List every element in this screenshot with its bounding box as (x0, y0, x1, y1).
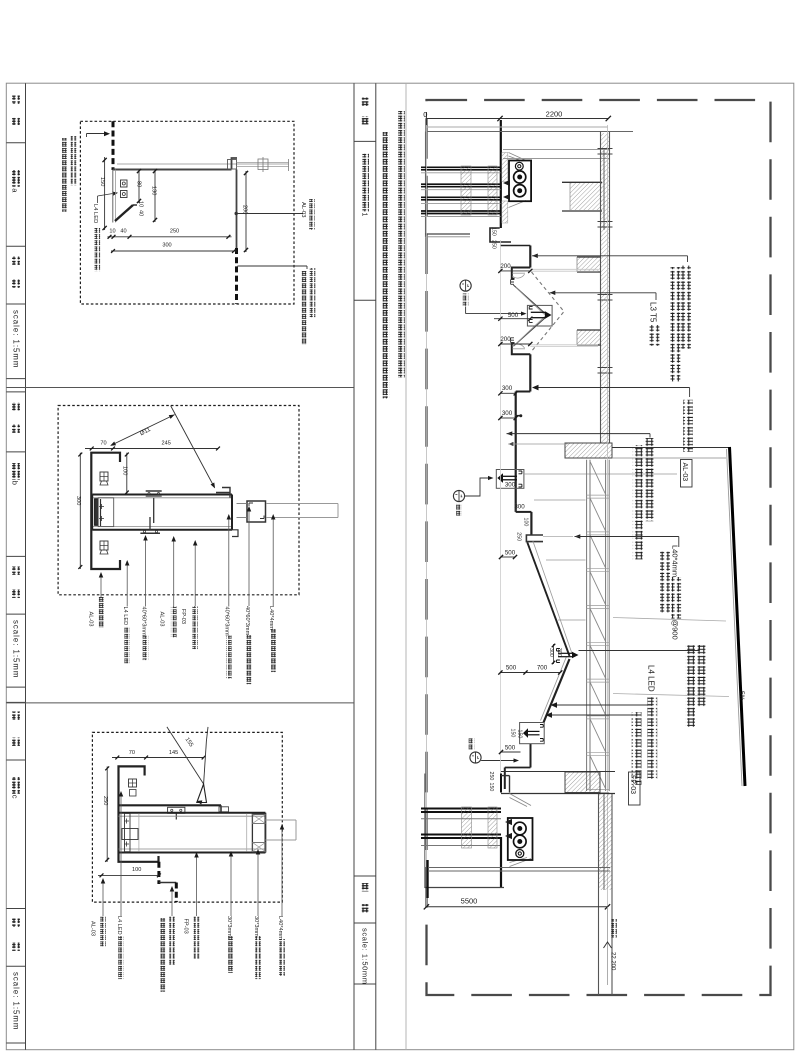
svg-text:70: 70 (129, 750, 135, 756)
detail b label 米白色铝板 (173, 538, 175, 607)
left window hatch blocks (461, 166, 471, 215)
svg-text:150: 150 (99, 177, 105, 186)
detail b label 40*60*3mm镀锌方管@600 (228, 516, 230, 607)
slope hook bracket (526, 535, 543, 542)
extension line right (607, 125, 609, 907)
detail a angle bracket (115, 205, 133, 221)
detail a label 米白色铝板 AL-03 leader (235, 212, 238, 215)
extension line mid (499, 240, 501, 780)
svg-text:AL-03: AL-03 (159, 612, 165, 627)
edge beam hatch (565, 443, 612, 458)
svg-text:40*60*3mm: 40*60*3mm (224, 607, 230, 637)
detail a dim 300 (111, 250, 237, 252)
ceiling slab hatch (601, 133, 610, 443)
detail b left end bracket (98, 498, 114, 527)
svg-text:L40*4mm: L40*4mm (671, 545, 680, 577)
detail c step bracket (220, 805, 222, 812)
detail c dashed border (92, 732, 282, 902)
svg-text:scale: 1:5mm: scale: 1:5mm (11, 310, 20, 368)
detail c diagonal leader (167, 727, 204, 784)
middle strip cell dividers (354, 140, 376, 142)
detail a label L4 LED leader (97, 196, 99, 203)
svg-text:300: 300 (556, 648, 562, 657)
svg-text:1: 1 (360, 213, 367, 217)
cove 2 (512, 343, 531, 354)
detail c label L40*4mm镀锌角钢@900 (281, 826, 283, 916)
svg-text:L4 LED: L4 LED (116, 916, 122, 935)
lightbox diagonal braces upper (509, 153, 527, 161)
svg-text:L4 LED: L4 LED (647, 665, 656, 692)
detail b dashed border (58, 406, 299, 595)
detail c left bracket (125, 813, 131, 851)
right window mullion bars (421, 808, 501, 810)
detail b top hanger (146, 490, 162, 492)
detail a bolt symbol (258, 159, 268, 170)
svg-text:FP-03: FP-03 (182, 919, 188, 934)
detail c main box (119, 812, 266, 814)
detail b dim 100 (126, 453, 128, 495)
svg-text:500: 500 (506, 665, 517, 672)
svg-text:40*60*3mm: 40*60*3mm (140, 607, 146, 637)
dim 5500 (426, 906, 607, 908)
detail a led strips (121, 180, 128, 187)
left wall slab lines (503, 149, 610, 151)
detail c ceiling line (119, 804, 222, 806)
strip c cell 比例 (12, 919, 20, 927)
note text line 1 (398, 111, 405, 377)
middle title strip borders (353, 83, 355, 1049)
svg-text:22.200: 22.200 (610, 952, 616, 971)
anchor box 2 (496, 470, 524, 489)
svg-text:L4 LED: L4 LED (122, 607, 128, 626)
anchor box 3 (520, 723, 545, 744)
skylight glass thick line (730, 447, 746, 786)
label 喷米白色漆 (660, 551, 670, 613)
ceiling connector top (500, 245, 530, 247)
svg-text:500: 500 (508, 312, 519, 319)
chevron solid (513, 285, 546, 315)
detail b Z bracket (216, 488, 230, 498)
strip a cell 详图a (12, 170, 20, 187)
label AL-03 box (681, 460, 693, 488)
svg-text:250: 250 (102, 796, 108, 805)
detail a label 米白色冲孔铝板一 (310, 268, 316, 317)
label 米白色冲孔铝板一 leader (532, 254, 538, 258)
left beam hatch (570, 183, 602, 210)
detail c label 米白色铝板 (102, 880, 104, 916)
label 米白色冲孔铝板二 leader (507, 431, 513, 436)
left window sill lines (426, 233, 471, 235)
detail c dim 100 (98, 874, 159, 876)
svg-text:80: 80 (136, 181, 142, 187)
svg-text:AL-03: AL-03 (300, 202, 306, 217)
details band divider 2 (6, 702, 354, 704)
svg-text:130: 130 (151, 186, 157, 195)
svg-text:@900: @900 (671, 620, 680, 640)
svg-text:c: c (11, 795, 20, 799)
svg-text:300: 300 (548, 648, 554, 657)
detail b main box (92, 494, 232, 496)
svg-text:L4 LED: L4 LED (92, 204, 98, 223)
lightbox diagonal braces (510, 794, 532, 806)
cove 1 (512, 268, 531, 279)
band divider line (405, 83, 407, 1049)
detail a ceiling line (113, 169, 232, 171)
label L4 LED软灯条 leader (552, 704, 653, 706)
svg-text:300: 300 (75, 496, 81, 505)
strip c cell 详图c (12, 777, 20, 794)
skylight edge lines (612, 447, 730, 449)
svg-text:250: 250 (488, 772, 494, 781)
detail a wall trim below ceiling (112, 170, 114, 223)
right window hatch blocks (462, 807, 472, 848)
detail callout bubble c (469, 738, 475, 750)
svg-text:100: 100 (522, 518, 528, 527)
detail b label 40*60*3mm镀锌方管 (145, 537, 147, 607)
svg-text:40: 40 (138, 210, 144, 216)
svg-text:40*60*3mm: 40*60*3mm (244, 606, 250, 636)
middle strip 比例 (361, 883, 369, 891)
detail a step and hanger (232, 158, 238, 170)
detail b dim 70 (85, 448, 118, 450)
svg-text:100: 100 (132, 867, 141, 873)
label 米白色铝板 leader (533, 387, 690, 389)
detail callout bubble b (453, 490, 464, 501)
big slope down (527, 542, 569, 656)
zero level line (426, 126, 608, 128)
left wall inner face line (500, 120, 502, 228)
AL-03 leader line (524, 473, 677, 475)
detail b dim 300 (79, 453, 81, 569)
slab joint ticks (598, 148, 613, 150)
svg-text:200: 200 (242, 205, 248, 214)
detail b label 40*60*3mm镀锌方管（通长） (248, 508, 250, 606)
right beam hatch (565, 772, 600, 793)
anchor box 1 (527, 305, 552, 326)
svg-text:scale: 1:50mm: scale: 1:50mm (361, 928, 370, 985)
strip a cell 比例 (12, 257, 20, 265)
strip b cell 图名 (12, 402, 20, 410)
ceiling profile upper vertical (529, 246, 531, 268)
label 采光顶参见土建 leader (579, 650, 700, 652)
ceiling panel lines right of cove1 (530, 268, 598, 270)
lower lightbox (508, 818, 533, 860)
svg-text:250: 250 (170, 229, 179, 235)
strip b cell 详图b (12, 463, 20, 480)
middle strip 图名 (361, 98, 369, 106)
svg-text:a: a (11, 188, 20, 193)
detail b C channel (91, 453, 120, 569)
label L40*4mm镀锌角钢@900 leader (543, 536, 573, 538)
svg-text:L3 T5: L3 T5 (649, 302, 658, 323)
svg-text:scale: 1:5mm: scale: 1:5mm (11, 620, 20, 678)
detail c C channel (119, 766, 159, 861)
svg-text:155: 155 (184, 737, 194, 748)
upper lightbox (509, 161, 531, 202)
svg-text:150: 150 (509, 729, 515, 738)
label 米白色冲孔铝板一 (681, 266, 691, 349)
ceiling step 1 (516, 391, 531, 393)
svg-text:245: 245 (162, 441, 171, 447)
detail c label 30*3mm镀锌方管@900 (230, 853, 232, 916)
detail a dim 80 (138, 170, 140, 204)
svg-text:L40*4mm: L40*4mm (277, 916, 283, 940)
svg-text:300: 300 (502, 385, 513, 392)
strip b cell 比例 (12, 567, 20, 575)
svg-text:200: 200 (500, 336, 511, 343)
svg-text:300: 300 (502, 410, 513, 417)
detail a drop panel thick dashed (235, 248, 238, 304)
svg-text:250: 250 (515, 532, 521, 541)
diffuser arrows lower (505, 819, 512, 825)
svg-text:145: 145 (169, 750, 178, 756)
detail a label 米白色冲孔铝板二 leader (87, 133, 108, 135)
detail b label L40*4mm镀锌角钢@900 (272, 516, 274, 606)
svg-text:250: 250 (490, 240, 496, 249)
slope foot (530, 744, 532, 768)
detail b right section box (247, 501, 266, 522)
svg-text:100: 100 (121, 466, 127, 475)
right window outer frame line (424, 774, 426, 889)
section dashed border (427, 100, 771, 995)
label 米白色铝板 (683, 400, 693, 452)
right wall below (598, 794, 600, 995)
roof truss web (590, 461, 606, 494)
detail c label 30*3mm镀锌方管(通长) (257, 851, 259, 916)
svg-text:30*3mm: 30*3mm (253, 916, 259, 937)
ceiling profile mid vertical (529, 354, 531, 391)
detail a label 米白色冲孔铝板一 leader (238, 265, 308, 267)
svg-text:200: 200 (500, 263, 511, 270)
left strip cell dividers (6, 142, 25, 144)
detail a label 米白色铝板 AL-03 (309, 199, 315, 230)
level marker 22.200 (607, 907, 609, 985)
svg-text:5%: 5% (738, 691, 745, 701)
detail a drop panel line (236, 170, 238, 249)
svg-text:AL-03: AL-03 (681, 463, 688, 482)
detail b bottom hanger (140, 532, 160, 534)
detail b dim 245 (118, 448, 218, 450)
right wall sill (426, 860, 428, 898)
window sill step line (425, 887, 504, 889)
detail c hanger plate (168, 807, 185, 813)
label 米白色冲孔铝板二 (644, 438, 654, 521)
detail b label 米白色铝板 (100, 574, 102, 597)
wall pocket hatch upper (502, 153, 508, 182)
svg-text:300: 300 (162, 243, 171, 249)
svg-text:10: 10 (109, 229, 115, 235)
svg-text:L40*4mm: L40*4mm (268, 606, 274, 630)
detail c label 孔径冲孔率需送样确认 (160, 918, 166, 992)
detail a panel edge thick dashed (112, 121, 115, 170)
dim 0-2200 line (426, 118, 608, 120)
svg-text:FP-03: FP-03 (180, 609, 186, 624)
detail c label L4 LED软灯条(双排) (120, 793, 122, 916)
ceiling dims (500, 270, 530, 272)
left wall bottom step (490, 228, 511, 242)
svg-text:70: 70 (100, 441, 106, 447)
ceiling slab double line (600, 132, 602, 444)
svg-text:150: 150 (517, 730, 523, 739)
roof truss chords (586, 460, 588, 791)
detail c hanger gusset (197, 784, 207, 803)
detail b lamp symbol 2 (100, 541, 108, 550)
svg-text:40: 40 (120, 229, 126, 235)
svg-text:0: 0 (423, 110, 427, 119)
label 采光顶参见土建钢结构喷米白色漆 (696, 644, 706, 706)
detail a dim 130 (154, 170, 156, 223)
detail a dashed border (80, 121, 294, 304)
edge beam mini leader (508, 442, 513, 446)
detail c dim 70 (112, 757, 150, 759)
svg-text:2200: 2200 (546, 110, 563, 119)
detail c label 米白色冲孔铝板一 (171, 888, 173, 916)
svg-text:300: 300 (505, 482, 516, 489)
right wall inner face lower (500, 837, 502, 888)
detail b label A级米白色拉膜 (194, 542, 196, 606)
detail b diagonal leader V (111, 415, 175, 446)
svg-text:AL-03: AL-03 (87, 612, 93, 627)
transverse beam hatch 2 (577, 330, 601, 345)
svg-text:5500: 5500 (461, 897, 478, 906)
strip a cell 图名 (12, 96, 20, 104)
svg-text:AL-03: AL-03 (89, 921, 95, 936)
detail a dim 150 (104, 157, 106, 230)
detail c dim 145 (150, 757, 204, 759)
note text line 2 (383, 132, 390, 398)
slope return (544, 659, 570, 723)
left window mullion bars (421, 166, 501, 168)
middle strip title 中庭天花剖面图1 (362, 154, 369, 212)
svg-text:scale: 1:5mm: scale: 1:5mm (11, 972, 20, 1030)
detail c through rod (265, 819, 296, 821)
svg-text:30*3mm: 30*3mm (226, 916, 232, 937)
detail callout bubble a (460, 280, 471, 291)
svg-text:Ø11: Ø11 (139, 427, 152, 438)
svg-text:10: 10 (138, 201, 144, 207)
detail a dim 200 (245, 171, 247, 252)
right wall inner face (500, 774, 502, 793)
svg-text:FP-03: FP-03 (629, 775, 636, 794)
detail b label L4 LED灯条(双排) (126, 562, 128, 607)
ceiling step 2 (520, 415, 522, 417)
chevron dashed fold (532, 272, 565, 351)
label A级米白色拉膜 leader (547, 714, 638, 716)
strip c cell 图名 (12, 712, 20, 720)
transverse beam hatch 1 (577, 257, 601, 272)
extension line left (425, 125, 427, 907)
svg-text:500: 500 (505, 550, 516, 557)
details band divider 1 (6, 387, 354, 389)
detail b lamp symbol 1 (100, 472, 108, 481)
skylight support tie (613, 618, 726, 622)
svg-text:150: 150 (488, 783, 494, 792)
detail c label A级米白色拉膜 (196, 854, 198, 916)
label L3 T5灯管 leader (550, 291, 556, 296)
label A级米白色拉膜 FP-03 (632, 712, 642, 785)
detail c lamp symbol (129, 779, 137, 787)
svg-text:150: 150 (490, 227, 496, 236)
detail b through rod (266, 503, 338, 505)
detail c panel edge dashed (157, 862, 160, 884)
detail c dim 250 (106, 766, 108, 861)
diffuser arrows upper (503, 180, 510, 186)
svg-text:b: b (11, 481, 20, 485)
left window outer frame line (425, 132, 427, 238)
svg-text:700: 700 (537, 665, 548, 672)
left title strip border (25, 83, 27, 1049)
detail a dim 10 40 250 chain (108, 236, 232, 238)
detail a label 米白色冲孔铝板二 (71, 136, 77, 185)
slope hanger rods (534, 499, 586, 501)
detail c right section box (252, 814, 265, 852)
ceiling panel lines right of cove2 (530, 344, 598, 346)
svg-text:500: 500 (505, 745, 516, 752)
